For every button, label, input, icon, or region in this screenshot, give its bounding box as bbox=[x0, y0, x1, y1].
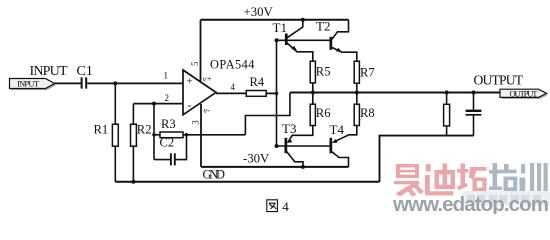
op-amp U1 OPA544 bbox=[164, 57, 255, 124]
svg-text:+: + bbox=[187, 76, 193, 88]
node R3 left bbox=[152, 133, 156, 137]
svg-text:GND: GND bbox=[203, 168, 226, 182]
svg-text:www.edatop.com: www.edatop.com bbox=[392, 193, 549, 214]
resistor R1 bbox=[94, 83, 119, 181]
svg-text:+30V: +30V bbox=[244, 5, 274, 19]
pin5 wire to +30V rail bbox=[200, 20, 202, 81]
svg-text:R3: R3 bbox=[161, 117, 176, 131]
node input junction bbox=[113, 81, 117, 85]
svg-text:R6: R6 bbox=[316, 106, 331, 120]
ground return wire bbox=[115, 181, 379, 183]
capacitor C1 bbox=[82, 77, 87, 88]
transistor T4 bbox=[330, 122, 349, 167]
svg-text:2: 2 bbox=[165, 93, 170, 103]
resistor R2 bbox=[131, 104, 152, 182]
迪 bbox=[426, 164, 431, 172]
wire C1 to op-amp pin1 bbox=[87, 82, 183, 84]
svg-text:T1: T1 bbox=[273, 20, 287, 35]
wire pin2 bbox=[133, 103, 183, 105]
svg-text:4: 4 bbox=[231, 82, 236, 92]
培 bbox=[493, 163, 498, 188]
wire input to C1 bbox=[55, 82, 81, 84]
INPUT connector bbox=[10, 79, 57, 91]
svg-text:OPA544: OPA544 bbox=[210, 57, 255, 71]
svg-text:OUTPUT: OUTPUT bbox=[474, 72, 524, 87]
node pin2/R3 bbox=[152, 102, 156, 106]
svg-text:R5: R5 bbox=[316, 65, 331, 79]
transistor T3 bbox=[282, 121, 303, 167]
resistor R5 bbox=[310, 61, 330, 92]
OUTPUT connector bbox=[500, 88, 548, 99]
svg-text:v+: v+ bbox=[203, 75, 212, 84]
svg-text:-: - bbox=[187, 98, 191, 112]
node R3 right bbox=[185, 133, 189, 137]
svg-text:1: 1 bbox=[164, 71, 169, 81]
svg-text:R2: R2 bbox=[137, 123, 152, 137]
load bottom wire bbox=[380, 136, 474, 182]
svg-text:v-: v- bbox=[204, 106, 211, 115]
svg-text:T2: T2 bbox=[316, 18, 330, 33]
svg-text:R8: R8 bbox=[360, 106, 375, 120]
svg-text:4: 4 bbox=[282, 199, 289, 214]
svg-text:T4: T4 bbox=[330, 122, 345, 137]
-30V line bbox=[201, 166, 349, 168]
svg-text:R7: R7 bbox=[360, 66, 375, 80]
svg-text:C2: C2 bbox=[160, 135, 175, 149]
feedback step wire bbox=[245, 93, 290, 135]
svg-text:INPUT: INPUT bbox=[30, 64, 68, 79]
transistor T2 bbox=[316, 18, 357, 61]
pin3 wire down bbox=[200, 104, 202, 167]
caption 图 4 bbox=[267, 199, 290, 214]
watermark 易迪拓培训 bbox=[392, 163, 550, 216]
svg-text:INPUT: INPUT bbox=[17, 79, 40, 89]
svg-text:-30V: -30V bbox=[243, 151, 270, 165]
svg-text:OUTPUT: OUTPUT bbox=[510, 88, 539, 98]
svg-text:3: 3 bbox=[191, 120, 201, 125]
faint doc box bbox=[462, 191, 550, 206]
svg-text:R1: R1 bbox=[94, 123, 109, 137]
svg-text:R4: R4 bbox=[250, 75, 265, 89]
resistor R3 bbox=[154, 117, 245, 138]
capacitor C2 bbox=[154, 135, 187, 166]
svg-text:C1: C1 bbox=[77, 64, 93, 79]
load resistor bbox=[444, 93, 450, 136]
resistor R8 bbox=[332, 93, 375, 143]
op-amp output wire bbox=[216, 92, 246, 94]
svg-text:5: 5 bbox=[190, 61, 200, 66]
拓 bbox=[461, 164, 466, 187]
wire T1 T2 bases bbox=[277, 39, 331, 41]
node T1 collector on rail bbox=[301, 18, 305, 22]
+30V rail bbox=[201, 19, 349, 21]
resistor R6 bbox=[287, 93, 331, 143]
node T3 collector bbox=[301, 165, 305, 169]
load capacitor bbox=[466, 93, 482, 136]
wire R3 left vertical bbox=[153, 104, 155, 160]
transistor T1 bbox=[273, 20, 313, 61]
wire T3 T4 bases bbox=[277, 145, 331, 147]
svg-text:T3: T3 bbox=[282, 121, 296, 136]
resistor R4 bbox=[246, 75, 276, 97]
训 bbox=[521, 164, 525, 174]
output rail bbox=[290, 92, 500, 94]
base node vertical bbox=[276, 40, 278, 146]
易 bbox=[396, 164, 419, 178]
resistor R7 bbox=[354, 61, 375, 92]
